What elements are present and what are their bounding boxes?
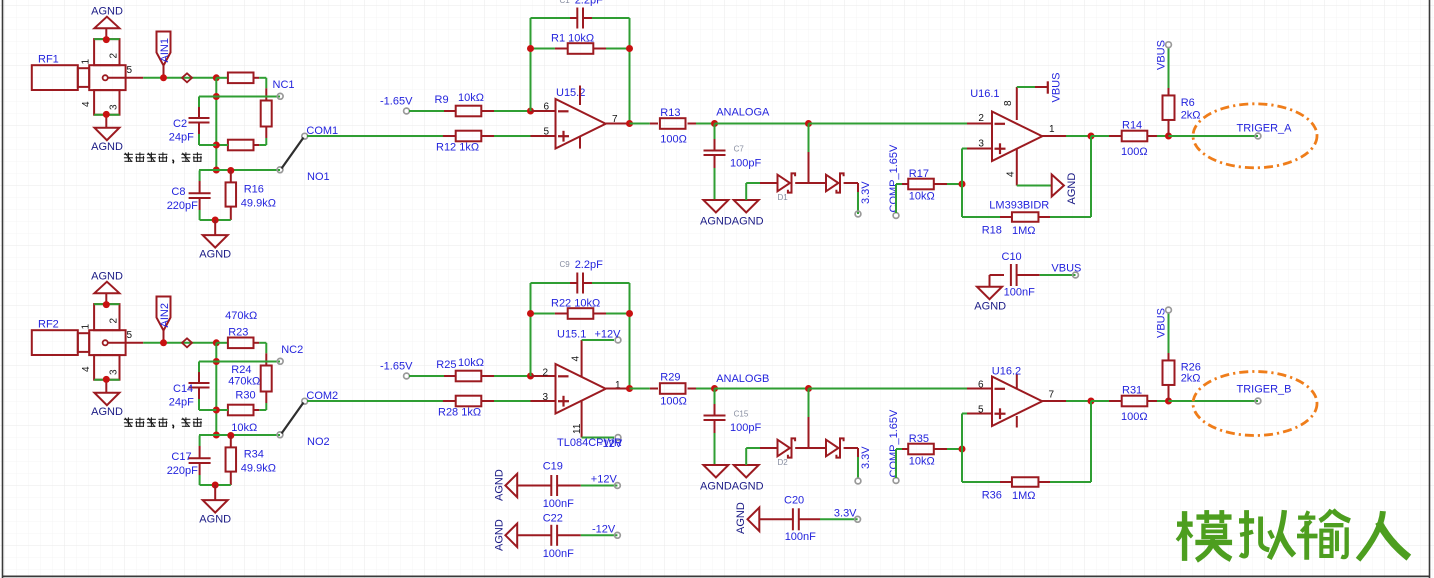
resistor R34 49.9kΩ (vertical) [230, 436, 232, 448]
svg-text:C19: C19 [543, 461, 563, 473]
svg-text:C22: C22 [543, 513, 563, 525]
svg-text:AGND: AGND [199, 514, 231, 526]
svg-text:100nF: 100nF [543, 548, 574, 560]
junction connector pin3 bottom [103, 111, 110, 118]
resistor (vertical, top channel) [261, 101, 272, 127]
wire diode cathode to 3.3V [844, 447, 858, 449]
junction analog node / clamp diodes [805, 385, 812, 392]
junction comparator output / feedback [1088, 398, 1095, 405]
capacitor C14 24pF [198, 362, 200, 373]
node COMP_1.65V [893, 478, 899, 484]
resistor R28 1kΩ [443, 400, 456, 402]
svg-text:AGND: AGND [493, 519, 505, 551]
svg-text:+12V: +12V [591, 474, 618, 486]
wire divider column vertical [215, 343, 217, 435]
svg-text:470kΩ: 470kΩ [228, 376, 260, 388]
power +12V (U15.1 pin4) [615, 337, 621, 343]
ground AGND (C20) [748, 508, 760, 532]
svg-text:100Ω: 100Ω [660, 134, 687, 146]
resistor R12 1kΩ [443, 135, 456, 137]
svg-text:AIN1: AIN1 [159, 38, 171, 62]
svg-text:3: 3 [109, 369, 120, 375]
wire vertical resistor to bottom resistor [265, 127, 267, 139]
svg-text:6: 6 [978, 380, 984, 391]
junction column / NC row [213, 93, 220, 100]
capacitor C10 100nF (VBUS decoupling) [990, 274, 1005, 276]
svg-text:3.3V: 3.3V [860, 446, 872, 469]
capacitor C17 220pF [199, 436, 201, 447]
junction column / NC row [213, 358, 220, 365]
switch link NO1 to COM1 [282, 138, 304, 169]
svg-text:R24: R24 [231, 364, 251, 376]
svg-text:AGND: AGND [493, 469, 505, 501]
svg-text:-1.65V: -1.65V [380, 96, 413, 108]
resistor R35 10kΩ [902, 448, 908, 450]
svg-text:1MΩ: 1MΩ [1012, 225, 1036, 237]
svg-text:R34: R34 [244, 449, 264, 461]
wire analog node across [715, 388, 809, 390]
svg-text:100nF: 100nF [543, 498, 574, 510]
svg-text:AGND: AGND [91, 141, 123, 153]
junction column / NO row [213, 167, 220, 174]
junction feedback left [527, 45, 534, 52]
svg-text:C9: C9 [560, 260, 571, 269]
junction NO row / R leg [227, 167, 234, 174]
svg-text:2.2pF: 2.2pF [575, 0, 603, 7]
svg-text:C17: C17 [171, 451, 191, 463]
node NO2 [277, 432, 283, 438]
comparator U16.1 pin 4 wire [1016, 148, 1018, 186]
svg-text:R29: R29 [660, 372, 680, 384]
ground AGND (connector top) [94, 282, 119, 294]
diode D1 (dual schottky, left) [778, 175, 790, 192]
svg-text:VBUS: VBUS [1155, 308, 1167, 338]
svg-text:100nF: 100nF [785, 531, 816, 543]
svg-text:R18: R18 [982, 225, 1002, 237]
svg-text:100Ω: 100Ω [660, 396, 687, 408]
wire cap/resistor bottom join [200, 484, 231, 486]
svg-text:R17: R17 [909, 168, 929, 180]
svg-text:COMP_1.65V: COMP_1.65V [888, 409, 900, 478]
wire cap/resistor bottom join [200, 219, 231, 221]
wire connector bottom edge [94, 114, 119, 116]
junction NO row / R leg [227, 432, 234, 439]
wire output to TRIGER_A [1169, 135, 1259, 137]
resistor R17 10kΩ [902, 183, 908, 185]
svg-text:AGND: AGND [91, 6, 123, 18]
wire net NC1 [216, 96, 280, 98]
resistor R23 470kΩ [216, 342, 228, 344]
net identifier diamond [182, 338, 192, 347]
svg-text:VBUS: VBUS [1051, 73, 1063, 103]
ground AGND (filter cap) [703, 465, 728, 478]
svg-text:COMP_1.65V: COMP_1.65V [888, 144, 900, 213]
svg-text:3: 3 [109, 104, 120, 110]
junction connector pin2 top [103, 301, 110, 308]
comparator U16.2 [992, 377, 1042, 427]
wire diode anode to ground [745, 448, 747, 465]
svg-text:11: 11 [572, 423, 583, 434]
svg-text:R25: R25 [436, 359, 456, 371]
capacitor C22 100nF (-12V decoupling) [517, 534, 551, 536]
highlight ellipse (orange) [1193, 104, 1317, 168]
ground AGND (C19) [505, 474, 517, 498]
svg-text:2kΩ: 2kΩ [1181, 110, 1201, 122]
wire bottom resistor to column [216, 144, 228, 146]
svg-text:2.2pF: 2.2pF [575, 259, 603, 271]
wire divider column vertical [215, 78, 217, 170]
power VBUS (C10) [1073, 272, 1079, 278]
resistor R25 10kΩ [409, 375, 444, 377]
svg-text:AGNDAGND: AGNDAGND [700, 481, 764, 493]
wire plus node to comparator [962, 148, 967, 150]
svg-text:NC1: NC1 [273, 79, 295, 91]
svg-text:+12V: +12V [595, 329, 622, 341]
svg-text:R6: R6 [1181, 97, 1195, 109]
wire bottom resistor to column [216, 409, 228, 411]
op-amp U15.1 pin 11 power wire [581, 401, 583, 438]
power 3.3V (clamp) [855, 478, 861, 484]
svg-text:6: 6 [544, 102, 550, 113]
junction connector pin2 top [103, 36, 110, 43]
wire AGND stem top [105, 28, 107, 39]
wire RF1 pin5 to input network [143, 77, 216, 79]
power 3.3V (C20) [855, 516, 861, 522]
svg-text:R28 1kΩ: R28 1kΩ [438, 407, 481, 419]
wire vertical resistor to bottom resistor [265, 392, 267, 404]
wire join to AGND [214, 485, 216, 500]
junction main wire / divider column [213, 74, 220, 81]
comparator U16.2 power stub bottom [1016, 416, 1018, 428]
wire plus node vertical [961, 414, 963, 483]
svg-text:10kΩ: 10kΩ [909, 456, 935, 468]
wire COM1 to R12 [307, 135, 443, 137]
svg-text:4: 4 [1006, 171, 1017, 177]
wire op-amp output [606, 388, 631, 390]
wire connector top edge [94, 303, 119, 305]
svg-text:10kΩ: 10kΩ [231, 422, 257, 434]
svg-text:49.9kΩ: 49.9kΩ [241, 198, 276, 210]
svg-text:C14: C14 [173, 383, 193, 395]
svg-text:U15.1: U15.1 [557, 329, 586, 341]
wire analog to comparator minus [809, 123, 968, 125]
wire between clamp diodes [795, 447, 826, 449]
svg-text:10kΩ: 10kΩ [909, 191, 935, 203]
wire plus node to comparator [962, 413, 967, 415]
svg-text:AGNDAGND: AGNDAGND [700, 216, 764, 228]
svg-text:VBUS: VBUS [1155, 40, 1167, 70]
svg-text:4: 4 [571, 356, 582, 362]
power VBUS (U16.1 pin8) [1047, 81, 1049, 93]
wire clamp branch vertical [808, 389, 810, 418]
svg-text:C20: C20 [784, 495, 804, 507]
net identifier diamond [182, 73, 192, 82]
wire feedback left vertical [530, 283, 532, 376]
svg-text:3.3V: 3.3V [860, 181, 872, 204]
annotation chinese note [124, 153, 133, 155]
junction output / feedback [626, 120, 633, 127]
resistor R14 100Ω [1091, 135, 1109, 137]
svg-text:100nF: 100nF [1004, 287, 1035, 299]
svg-text:3.3V: 3.3V [834, 508, 857, 520]
capacitor C15 100pF [714, 389, 716, 405]
svg-text:D1: D1 [778, 193, 789, 202]
resistor R1 10kΩ (feedback) [531, 48, 555, 50]
svg-text:5: 5 [127, 65, 133, 76]
svg-text:2: 2 [543, 368, 549, 379]
svg-text:-12V: -12V [592, 524, 616, 536]
junction inverting input R22 tap [527, 373, 534, 380]
wire analog node across [715, 123, 809, 125]
svg-text:24pF: 24pF [169, 132, 194, 144]
svg-text:10kΩ: 10kΩ [458, 92, 484, 104]
svg-text:R13: R13 [660, 107, 680, 119]
resistor R22 10kΩ (feedback) [531, 313, 555, 315]
ground AGND (diode anode) [734, 465, 759, 478]
svg-text:2: 2 [109, 318, 120, 324]
node TRIGER_B [1255, 398, 1261, 404]
wire comparator output [1041, 400, 1066, 402]
power VBUS (pull-up) [1166, 307, 1172, 313]
svg-text:1: 1 [81, 59, 92, 65]
diode D2 (dual schottky, left) [778, 440, 790, 457]
wire NC row to cap branch [199, 361, 216, 363]
svg-text:ANALOGB: ANALOGB [716, 373, 769, 385]
svg-text:R14: R14 [1122, 120, 1142, 132]
junction main wire / divider column [213, 339, 220, 346]
junction comparator plus node [959, 181, 966, 188]
wire net NO1 row [199, 169, 280, 171]
node -1.65V (to R25) [404, 373, 410, 379]
power 3.3V (clamp) [855, 211, 861, 217]
svg-text:AGND: AGND [91, 271, 123, 283]
title text 模拟输入 (analog input) [1177, 510, 1409, 561]
capacitor C2 24pF [198, 97, 200, 108]
ground AGND (connector bottom) [94, 393, 119, 406]
op-amp U15.2 power stub top [579, 86, 581, 106]
wire diode anode to ground [745, 183, 747, 200]
capacitor C9 2.2pF (feedback) [531, 282, 571, 284]
resistor R29 100Ω [630, 388, 650, 390]
junction feedback right [626, 45, 633, 52]
node TRIGER_A [1255, 133, 1261, 139]
connector RF2 [32, 330, 78, 355]
junction comparator output / feedback [1088, 133, 1095, 140]
svg-text:4: 4 [81, 101, 92, 107]
junction column / cap row [213, 142, 220, 149]
svg-text:220pF: 220pF [167, 465, 198, 477]
svg-text:AGND: AGND [1066, 173, 1078, 205]
svg-text:C8: C8 [171, 186, 185, 198]
wire C10 to ground [989, 275, 991, 287]
svg-text:AGND: AGND [199, 249, 231, 261]
highlight ellipse (orange) [1193, 372, 1317, 436]
junction feedback left [527, 310, 534, 317]
svg-text:TL084CPWR: TL084CPWR [557, 437, 622, 449]
svg-text:1MΩ: 1MΩ [1012, 490, 1036, 502]
wire diode cathode to 3.3V [844, 182, 858, 184]
svg-text:RF2: RF2 [38, 319, 59, 331]
wire plus node vertical [961, 149, 963, 218]
resistor R13 100Ω [630, 123, 650, 125]
svg-text:2kΩ: 2kΩ [1181, 373, 1201, 385]
svg-text:RF1: RF1 [38, 54, 59, 66]
svg-text:C15: C15 [734, 410, 749, 419]
svg-text:R12 1kΩ: R12 1kΩ [436, 142, 479, 154]
ground AGND (C10) [977, 287, 1002, 300]
comparator U16.2 power stub top [1016, 375, 1018, 390]
resistor R24 470kΩ (vertical) [261, 366, 272, 392]
resistor R30 10kΩ [228, 405, 254, 416]
resistor R6 2kΩ (pull-up) [1168, 47, 1170, 88]
wire COMP_1.65V to resistor [895, 449, 897, 478]
svg-text:TRIGER_A: TRIGER_A [1237, 123, 1293, 135]
switch link NO2 to COM2 [282, 403, 304, 434]
op-amp U15.2 power stub bottom [579, 136, 581, 148]
wire AGND stem bottom [105, 115, 107, 128]
svg-text:1: 1 [81, 324, 92, 330]
svg-text:C1: C1 [560, 0, 571, 5]
diode D1 (dual schottky, right) [826, 175, 838, 192]
svg-text:R1 10kΩ: R1 10kΩ [551, 33, 594, 45]
svg-text:-1.65V: -1.65V [380, 361, 413, 373]
svg-text:3: 3 [543, 392, 549, 403]
wire connector bottom edge [94, 379, 119, 381]
wire cap row to column [199, 144, 216, 146]
svg-text:C7: C7 [734, 145, 745, 154]
svg-text:5: 5 [978, 405, 984, 416]
wire feedback right vertical [629, 18, 631, 124]
svg-text:R9: R9 [435, 94, 449, 106]
junction output / feedback [626, 385, 633, 392]
diode D2 (dual schottky, right) [826, 440, 838, 457]
svg-text:7: 7 [1049, 390, 1055, 401]
wire series resistor to vertical resistor [254, 342, 260, 344]
node COMP_1.65V [893, 213, 899, 219]
svg-text:3: 3 [978, 139, 984, 150]
svg-text:C10: C10 [1002, 251, 1022, 263]
wire AGND stem top [105, 293, 107, 304]
svg-text:R22 10kΩ: R22 10kΩ [551, 298, 600, 310]
wire analog to comparator minus [809, 388, 968, 390]
svg-text:LM393BIDR: LM393BIDR [989, 200, 1049, 212]
wire comparator output [1041, 135, 1066, 137]
op-amp U15.1 pin 4 power wire [581, 340, 583, 377]
junction feedback right [626, 310, 633, 317]
svg-text:4: 4 [81, 366, 92, 372]
wire net NO2 row [199, 434, 280, 436]
svg-text:AIN2: AIN2 [159, 303, 171, 327]
svg-text:49.9kΩ: 49.9kΩ [241, 463, 276, 475]
node -1.65V (to R9) [404, 108, 410, 114]
wire feedback left vertical [530, 18, 532, 111]
svg-text:TRIGER_B: TRIGER_B [1237, 384, 1292, 396]
wire op-amp output [606, 123, 631, 125]
op-amp U15.2 [556, 99, 606, 149]
svg-text:24pF: 24pF [169, 397, 194, 409]
ground AGND (diode anode) [734, 200, 759, 213]
wire COM2 to R28 [307, 400, 443, 402]
svg-text:C2: C2 [173, 118, 187, 130]
ground AGND (C22) [505, 524, 517, 548]
junction column / cap row [213, 407, 220, 414]
junction output / pull-up [1165, 133, 1172, 140]
wire AGND stem bottom [105, 380, 107, 393]
wire between clamp diodes [795, 182, 826, 184]
node NC1 [277, 93, 283, 99]
capacitor C7 100pF [714, 124, 716, 140]
resistor R26 2kΩ (pull-up) [1168, 312, 1170, 353]
node COM1 [302, 133, 308, 139]
power -12V (U15.1 pin11) [615, 435, 621, 441]
op-amp U15.1 TL084CPWR [556, 364, 606, 414]
annotation chinese note [124, 418, 133, 420]
resistor R16 49.9kΩ (vertical) [230, 171, 232, 183]
svg-text:D2: D2 [778, 458, 789, 467]
power -12V (C22) [615, 532, 621, 538]
junction analog node / filter cap [711, 385, 718, 392]
svg-text:5: 5 [544, 127, 550, 138]
svg-text:R23: R23 [228, 327, 248, 339]
capacitor C1 2.2pF (feedback) [531, 17, 571, 19]
svg-text:AGND: AGND [974, 301, 1006, 313]
junction AIN2 on main wire [160, 339, 167, 346]
net flag AIN2 [157, 297, 171, 331]
svg-text:10kΩ: 10kΩ [458, 357, 484, 369]
junction AIN1 on main wire [160, 74, 167, 81]
ground AGND (connector bottom) [94, 128, 119, 141]
power VBUS (pull-up) [1166, 42, 1172, 48]
resistor R9 10kΩ [409, 110, 444, 112]
capacitor C8 220pF [199, 171, 201, 182]
ground AGND (U16.1 pin4) [1052, 175, 1064, 197]
svg-text:8: 8 [1003, 100, 1014, 106]
node NC2 [277, 358, 283, 364]
svg-text:100pF: 100pF [730, 422, 761, 434]
wire join to AGND [214, 220, 216, 235]
node COM2 [302, 398, 308, 404]
svg-text:100Ω: 100Ω [1121, 146, 1148, 158]
svg-text:R36: R36 [982, 490, 1002, 502]
svg-text:NO1: NO1 [307, 171, 330, 183]
ground AGND (input network) [203, 235, 228, 248]
svg-text:NO2: NO2 [307, 436, 330, 448]
ground AGND (input network) [203, 500, 228, 512]
svg-text:R35: R35 [909, 433, 929, 445]
svg-text:2: 2 [978, 113, 984, 124]
svg-text:5: 5 [127, 330, 133, 341]
ground AGND (filter cap) [703, 200, 728, 213]
junction column / NO row [213, 432, 220, 439]
svg-text:2: 2 [109, 53, 120, 59]
junction connector pin3 bottom [103, 376, 110, 383]
comparator U16.1 LM393BIDR [992, 112, 1042, 162]
capacitor C19 100nF (+12V decoupling) [517, 485, 551, 487]
ground AGND (connector top) [94, 17, 119, 29]
wire connector top edge [94, 38, 119, 40]
svg-text:VBUS: VBUS [1051, 263, 1081, 275]
wire inverting input to op-amp [531, 375, 556, 377]
wire output to TRIGER_B [1169, 400, 1259, 402]
svg-text:R16: R16 [244, 184, 264, 196]
wire NC row to cap branch [199, 96, 216, 98]
node NO1 [277, 167, 283, 173]
resistor (series input, top) [216, 77, 228, 79]
resistor R18 1MΩ (hysteresis) [962, 216, 1000, 218]
junction bottom join [212, 482, 219, 489]
wire RF2 pin5 to input network [143, 342, 216, 344]
svg-text:470kΩ: 470kΩ [225, 310, 257, 322]
